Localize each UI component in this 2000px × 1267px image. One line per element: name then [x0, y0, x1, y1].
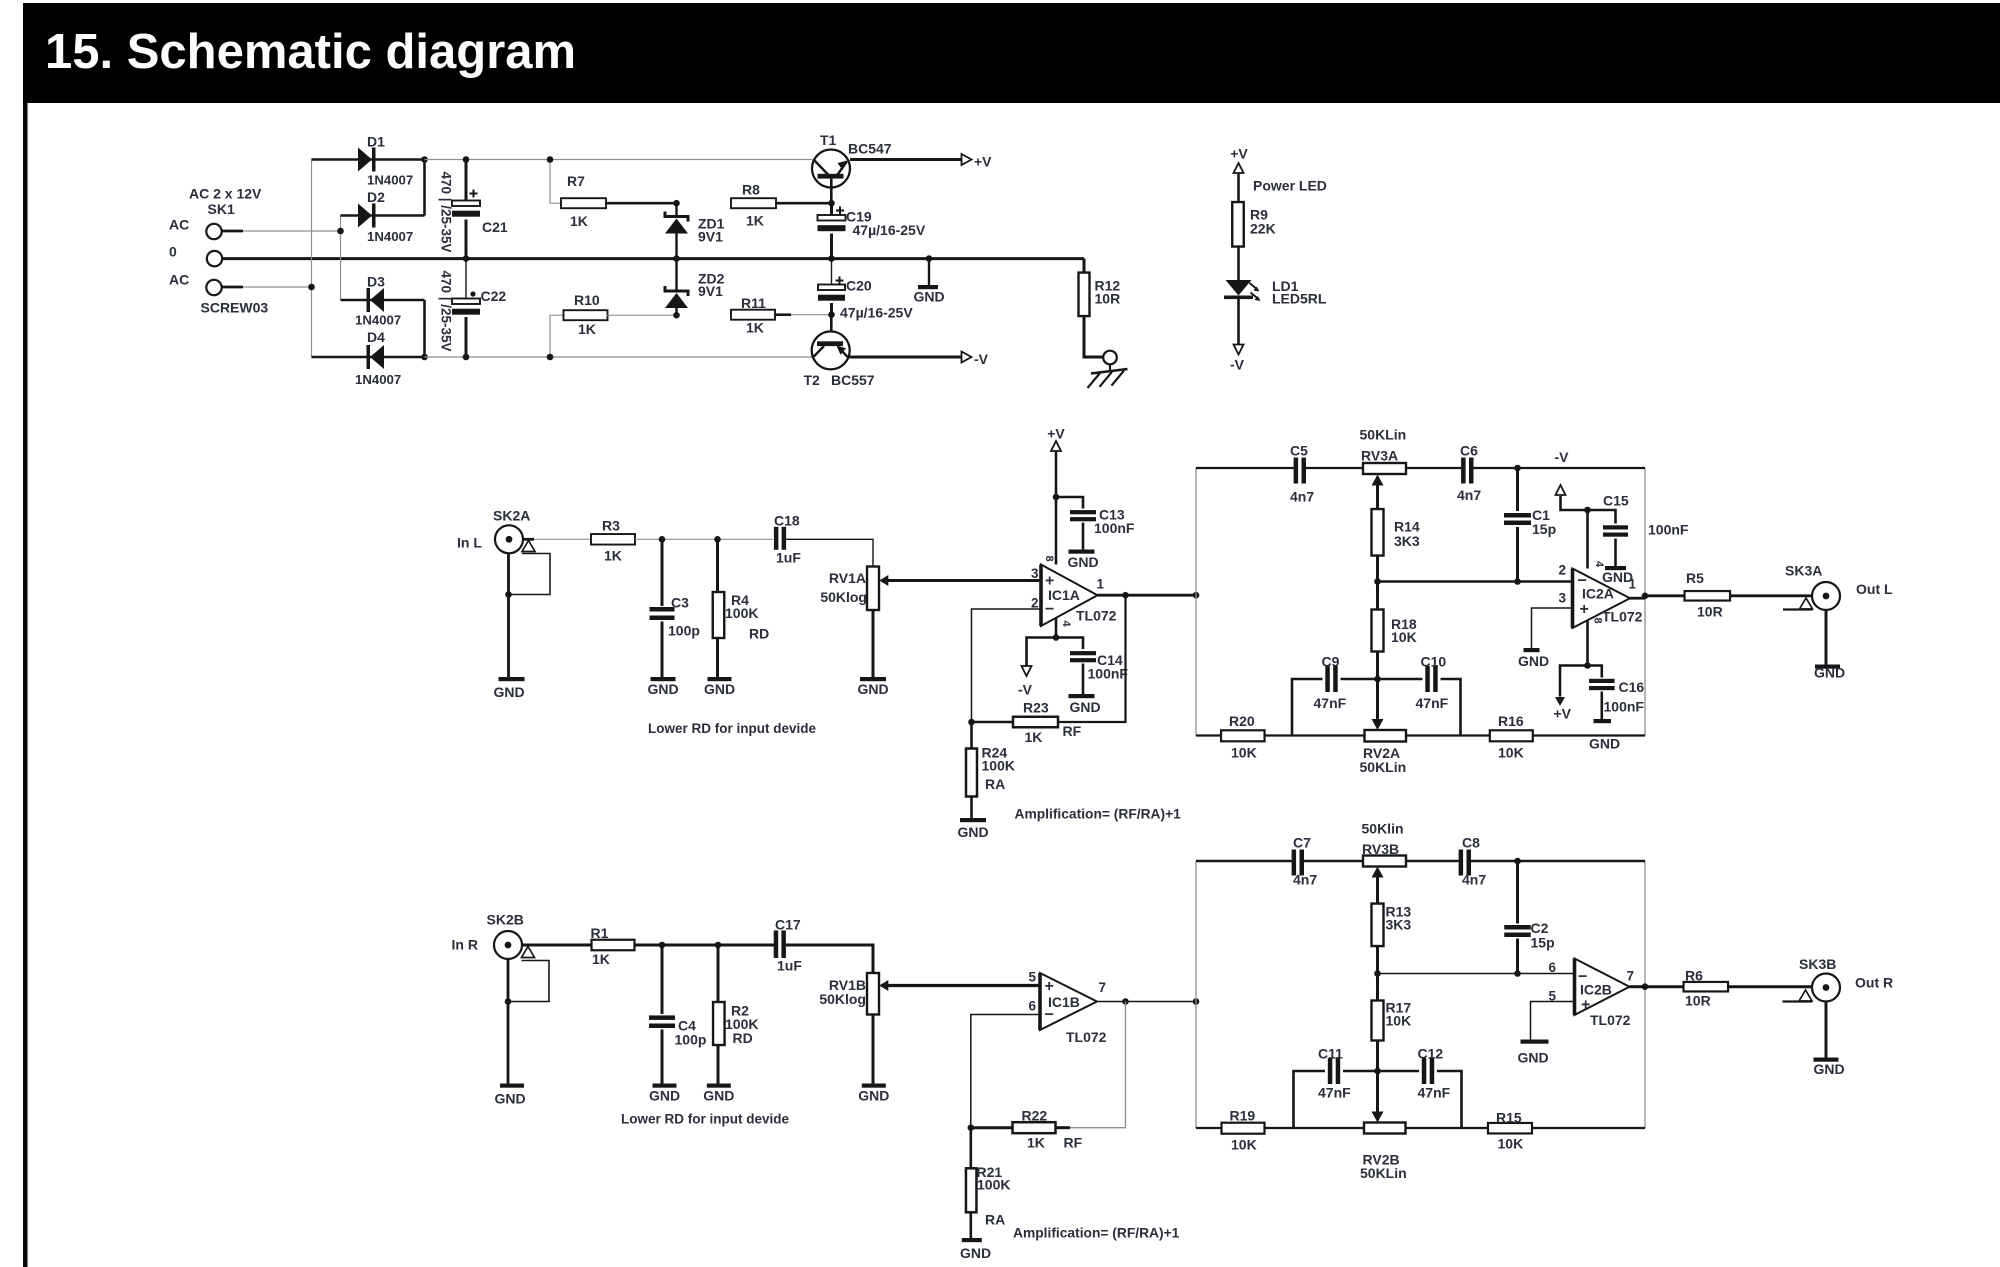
svg-text:10K: 10K	[1391, 629, 1417, 645]
left page border	[23, 103, 28, 1267]
node -V (LED)	[1234, 345, 1244, 355]
wire	[1083, 259, 1086, 273]
svg-text:C5: C5	[1290, 443, 1308, 459]
ground	[1594, 719, 1612, 723]
svg-text:1K: 1K	[1025, 729, 1043, 745]
svg-text:47µ/16-25V: 47µ/16-25V	[840, 305, 913, 321]
svg-text:100nF: 100nF	[1094, 520, 1135, 536]
resistor R17	[1376, 974, 1379, 1001]
resistor R6	[1684, 982, 1729, 992]
ground	[962, 1238, 982, 1242]
svg-text:C7: C7	[1293, 835, 1311, 851]
junction	[1584, 662, 1591, 669]
svg-text:100p: 100p	[668, 623, 700, 639]
svg-text:47nF: 47nF	[1416, 695, 1449, 711]
svg-text:10K: 10K	[1498, 1136, 1524, 1152]
svg-text:AC: AC	[169, 272, 189, 288]
junction	[421, 354, 428, 361]
svg-text:RD: RD	[733, 1030, 753, 1046]
svg-text:R19: R19	[1230, 1108, 1256, 1124]
resistor R21	[969, 1128, 972, 1169]
svg-text:GND: GND	[1518, 653, 1549, 669]
connector SK3A	[1812, 582, 1840, 610]
wire	[1560, 666, 1588, 697]
svg-text:R3: R3	[602, 518, 620, 534]
svg-text:RV3B: RV3B	[1362, 841, 1399, 857]
wire	[1055, 618, 1058, 638]
connector SK3B	[1812, 974, 1840, 1002]
svg-text:GND: GND	[958, 824, 989, 840]
junction	[421, 156, 428, 163]
svg-text:GND: GND	[858, 1088, 889, 1104]
capacitor C1	[1516, 468, 1519, 511]
svg-text:R16: R16	[1498, 713, 1524, 729]
wire	[1531, 1002, 1575, 1040]
svg-text:GND: GND	[649, 1088, 680, 1104]
svg-text:C17: C17	[775, 917, 801, 933]
wire	[222, 230, 243, 233]
wire	[1056, 638, 1083, 650]
svg-text:3K3: 3K3	[1386, 917, 1412, 933]
wire	[1058, 595, 1126, 722]
svg-text:T2: T2	[804, 372, 821, 388]
svg-text:1uF: 1uF	[776, 550, 801, 566]
svg-text:R15: R15	[1496, 1110, 1522, 1126]
sleeve symbol SK2B	[522, 947, 535, 958]
connector SK2B	[494, 931, 522, 959]
resistor R24	[970, 722, 973, 749]
wire tone box left edge	[1195, 468, 1197, 736]
potentiometer RV1A	[867, 567, 879, 611]
wire	[972, 609, 1042, 722]
wire	[222, 286, 243, 289]
wire	[534, 538, 591, 540]
wire	[776, 202, 832, 205]
junction	[828, 255, 835, 262]
junction	[463, 354, 470, 361]
ground	[862, 1084, 886, 1088]
wire wiper to IC1A	[888, 579, 1041, 582]
svg-text:GND: GND	[647, 681, 678, 697]
svg-text:C6: C6	[1460, 443, 1478, 459]
wire bottom raw rail	[425, 356, 813, 358]
wire	[1825, 610, 1828, 665]
svg-text:SK1: SK1	[208, 201, 235, 217]
svg-text:4n7: 4n7	[1462, 872, 1486, 888]
resistor R9	[1232, 202, 1244, 247]
capacitor C17	[774, 930, 779, 958]
junction	[1514, 858, 1521, 865]
svg-text:50Klog: 50Klog	[820, 589, 867, 605]
transistor T2	[830, 315, 833, 342]
ground	[1521, 1040, 1549, 1044]
wire	[1730, 594, 1812, 597]
junction	[1122, 998, 1129, 1005]
capacitor C8	[1459, 850, 1464, 876]
svg-text:C21: C21	[482, 219, 508, 235]
svg-text:50Klog: 50Klog	[819, 991, 866, 1007]
potentiometer RV1B	[867, 973, 879, 1015]
svg-text:+V: +V	[1554, 706, 1572, 722]
wire	[312, 356, 425, 359]
sleeve symbol SK2A	[522, 541, 535, 552]
wire	[791, 314, 832, 316]
potentiometer RV2A	[1376, 679, 1379, 719]
svg-text:GND: GND	[913, 289, 944, 305]
wire top rail	[1196, 860, 1292, 862]
junction	[547, 354, 554, 361]
svg-text:C3: C3	[671, 595, 689, 611]
ground	[707, 1084, 731, 1088]
svg-text:8: 8	[1592, 617, 1604, 623]
resistor R2	[717, 945, 720, 1002]
svg-text:R1: R1	[591, 925, 609, 941]
wire	[775, 313, 791, 316]
svg-text:RA: RA	[985, 1212, 1005, 1228]
svg-text:AC: AC	[169, 217, 189, 233]
junction	[1374, 1068, 1381, 1075]
svg-text:7: 7	[1099, 980, 1107, 995]
svg-text:R7: R7	[567, 173, 585, 189]
svg-text:10K: 10K	[1386, 1013, 1412, 1029]
op-amp IC2B	[1575, 959, 1630, 1016]
svg-text:100nF: 100nF	[1604, 699, 1645, 715]
junction	[1642, 983, 1649, 990]
node +V	[962, 154, 972, 165]
wire IC2B output	[1630, 985, 1646, 988]
svg-text:470 | /25-35V: 470 | /25-35V	[439, 171, 454, 252]
junction	[1642, 593, 1649, 600]
wire	[1728, 985, 1812, 988]
junction	[968, 1124, 975, 1131]
svg-text:RV1A: RV1A	[829, 570, 866, 586]
junction	[463, 255, 470, 262]
svg-text:3: 3	[1031, 566, 1039, 581]
svg-text:TL072: TL072	[1602, 609, 1643, 625]
op-amp IC1B	[1040, 973, 1097, 1030]
resistor R1	[592, 940, 635, 951]
svg-text:-V: -V	[974, 351, 989, 367]
svg-text:+: +	[1581, 997, 1590, 1014]
svg-text:GND: GND	[1518, 1050, 1549, 1066]
capacitor C10	[1425, 666, 1430, 692]
wire	[607, 314, 677, 316]
resistor R15	[1488, 1123, 1532, 1134]
wire pin2 line	[1378, 580, 1573, 583]
svg-text:C11: C11	[1318, 1046, 1343, 1062]
wire	[1588, 510, 1616, 524]
svg-text:Power LED: Power LED	[1253, 178, 1327, 194]
svg-text:BC557: BC557	[831, 372, 875, 388]
svg-text:0: 0	[169, 244, 177, 260]
svg-text:10K: 10K	[1231, 1137, 1257, 1153]
op-amp IC1A	[1041, 565, 1098, 627]
resistor R8	[731, 198, 776, 208]
wire	[1588, 666, 1602, 678]
svg-text:10R: 10R	[1095, 291, 1121, 307]
svg-text:IC1A: IC1A	[1048, 587, 1080, 603]
resistor R22	[971, 1126, 1013, 1129]
svg-text:GND: GND	[1602, 569, 1633, 585]
resistor R23	[972, 721, 1014, 724]
svg-text:In R: In R	[452, 937, 478, 953]
title bar	[23, 3, 2000, 103]
wire C9-C10 bridge	[1292, 679, 1323, 736]
wire	[550, 160, 561, 204]
wire	[243, 286, 312, 288]
svg-text:1K: 1K	[746, 320, 764, 336]
svg-text:100nF: 100nF	[1648, 522, 1689, 538]
wire	[1237, 173, 1240, 202]
svg-text:TL072: TL072	[1076, 608, 1117, 624]
svg-text:C16: C16	[1619, 679, 1645, 695]
capacitor C5	[1294, 458, 1299, 484]
wire tone box right edge	[1644, 468, 1646, 736]
svg-text:Out R: Out R	[1855, 975, 1893, 991]
potentiometer RV3B	[1363, 856, 1406, 867]
svg-text:C8: C8	[1462, 835, 1480, 851]
svg-text:+V: +V	[1230, 146, 1248, 162]
wire tone box left edge	[1195, 861, 1197, 1128]
svg-text:−: −	[1045, 601, 1054, 618]
junction	[673, 255, 680, 262]
svg-text:+: +	[1045, 978, 1054, 995]
svg-text:C9: C9	[1322, 654, 1340, 670]
svg-text:AC 2 x 12V: AC 2 x 12V	[189, 186, 262, 202]
ground	[651, 677, 676, 681]
svg-text:10K: 10K	[1498, 745, 1524, 761]
junction	[714, 536, 721, 543]
svg-text:47nF: 47nF	[1314, 695, 1347, 711]
ground	[1069, 550, 1095, 554]
svg-text:GND: GND	[1814, 665, 1845, 681]
svg-text:10K: 10K	[1231, 745, 1257, 761]
wire	[1056, 497, 1083, 509]
svg-text:C15: C15	[1603, 493, 1629, 509]
wire	[635, 538, 773, 540]
wire top rail	[1196, 467, 1294, 469]
junction	[505, 998, 512, 1005]
svg-text:6: 6	[1028, 999, 1036, 1014]
wire	[1561, 496, 1588, 569]
wire	[872, 1015, 875, 1084]
svg-text:R20: R20	[1229, 713, 1255, 729]
node -V	[1022, 666, 1032, 676]
junction	[968, 719, 975, 726]
svg-text:+: +	[1580, 601, 1589, 618]
wire +V supply IC1A	[1055, 451, 1058, 565]
svg-text:1K: 1K	[570, 213, 588, 229]
ground	[499, 677, 525, 681]
svg-text:GND: GND	[1069, 699, 1100, 715]
junction	[926, 255, 933, 262]
junction	[673, 312, 680, 319]
junction	[1193, 998, 1200, 1005]
ground	[1524, 648, 1540, 652]
svg-text:50KLin: 50KLin	[1360, 1165, 1407, 1181]
capacitor C12	[1422, 1058, 1427, 1084]
wire tone box right edge	[1644, 861, 1646, 1128]
wire sleeve bracket	[509, 554, 551, 595]
svg-text:GND: GND	[1589, 736, 1620, 752]
svg-text:D1: D1	[367, 134, 385, 150]
capacitor C3	[661, 539, 664, 606]
svg-text:1K: 1K	[1027, 1135, 1045, 1151]
resistor R13	[1372, 904, 1384, 947]
wire IC1B output	[1097, 1001, 1196, 1003]
svg-text:4n7: 4n7	[1290, 489, 1314, 505]
svg-text:R22: R22	[1022, 1108, 1048, 1124]
wire left bus	[311, 160, 313, 358]
junction	[463, 156, 470, 163]
svg-text:C20: C20	[846, 278, 872, 294]
svg-text:Amplification= (RF/RA)+1: Amplification= (RF/RA)+1	[1013, 1226, 1180, 1241]
node +V	[1555, 697, 1565, 706]
svg-text:9V1: 9V1	[698, 283, 723, 299]
svg-text:1uF: 1uF	[777, 958, 802, 974]
resistor R4	[716, 539, 719, 592]
wire	[1532, 608, 1573, 648]
svg-text:RA: RA	[985, 776, 1005, 792]
svg-text:15. Schematic diagram: 15. Schematic diagram	[45, 25, 576, 79]
svg-text:5: 5	[1028, 970, 1036, 985]
wire shield to ground	[507, 553, 510, 677]
svg-text:4n7: 4n7	[1457, 487, 1481, 503]
svg-text:10R: 10R	[1685, 993, 1711, 1009]
svg-text:-V: -V	[1018, 682, 1033, 698]
svg-text:R10: R10	[574, 292, 600, 308]
junction	[308, 284, 315, 291]
connector SK1	[206, 224, 221, 239]
potentiometer RV3A	[1363, 463, 1406, 474]
svg-text:50Klin: 50Klin	[1362, 821, 1404, 837]
svg-text:BC547: BC547	[848, 141, 892, 157]
capacitor C11	[1328, 1058, 1333, 1084]
wire	[1586, 620, 1589, 666]
svg-text:In L: In L	[457, 535, 482, 551]
svg-text:D4: D4	[367, 329, 385, 345]
svg-text:GND: GND	[704, 681, 735, 697]
svg-text:1K: 1K	[746, 213, 764, 229]
wire	[635, 944, 775, 947]
svg-text:R8: R8	[742, 182, 760, 198]
capacitor C9	[1325, 666, 1330, 692]
svg-text:Lower RD for input devide: Lower RD for input devide	[648, 721, 816, 736]
capacitor C18	[774, 527, 779, 550]
svg-text:T1: T1	[820, 132, 837, 148]
junction	[1193, 592, 1200, 599]
wire pin6 line	[1378, 973, 1575, 975]
resistor R14	[1372, 509, 1384, 556]
connector SK2A	[495, 525, 523, 553]
svg-text:50KLin: 50KLin	[1360, 759, 1407, 775]
ground	[960, 818, 986, 822]
capacitor C21	[465, 160, 468, 201]
wire	[550, 315, 564, 357]
svg-text:Out L: Out L	[1856, 581, 1893, 597]
svg-text:SK2B: SK2B	[487, 912, 524, 928]
resistor R16	[1490, 730, 1533, 741]
svg-text:47µ/16-25V: 47µ/16-25V	[853, 222, 926, 238]
svg-text:GND: GND	[493, 684, 524, 700]
svg-text:C12: C12	[1418, 1046, 1444, 1062]
svg-text:1K: 1K	[592, 951, 610, 967]
wire	[1825, 1002, 1828, 1059]
ground	[653, 1084, 677, 1088]
svg-text:Lower RD for input devide: Lower RD for input devide	[621, 1112, 789, 1127]
svg-text:100K: 100K	[725, 605, 758, 621]
svg-text:9V1: 9V1	[698, 229, 723, 245]
svg-text:4n7: 4n7	[1293, 872, 1317, 888]
svg-text:3: 3	[1558, 591, 1566, 606]
svg-text:GND: GND	[494, 1091, 525, 1107]
zener ZD1	[675, 203, 677, 218]
wire +V out	[850, 158, 962, 161]
wire bottom rail	[1196, 1127, 1222, 1129]
svg-text:+V: +V	[974, 154, 992, 170]
junction	[659, 942, 666, 949]
junction	[659, 536, 666, 543]
wire	[786, 539, 873, 566]
svg-text:470 | /25-35V: 470 | /25-35V	[439, 270, 454, 351]
junction	[673, 200, 680, 207]
svg-text:C22: C22	[481, 288, 507, 304]
svg-text:2: 2	[1558, 563, 1566, 578]
capacitor C20	[831, 259, 833, 285]
svg-text:SK3B: SK3B	[1799, 956, 1836, 972]
svg-text:1K: 1K	[604, 548, 622, 564]
junction	[1053, 494, 1060, 501]
ground	[860, 677, 886, 681]
wire	[1237, 247, 1240, 281]
svg-text:GND: GND	[703, 1088, 734, 1104]
svg-text:8: 8	[1043, 555, 1055, 561]
svg-text:IC2A: IC2A	[1582, 586, 1614, 602]
svg-text:6: 6	[1548, 960, 1556, 975]
junction	[547, 156, 554, 163]
svg-text:3K3: 3K3	[1394, 533, 1420, 549]
svg-text:4: 4	[1060, 620, 1072, 627]
svg-text:-V: -V	[1555, 449, 1570, 465]
svg-text:47nF: 47nF	[1318, 1085, 1351, 1101]
svg-text:R5: R5	[1686, 570, 1704, 586]
svg-text:D2: D2	[367, 189, 385, 205]
wire IC2A output	[1630, 597, 1645, 600]
capacitor C4	[661, 945, 664, 1014]
svg-text:100p: 100p	[675, 1032, 707, 1048]
resistor R19	[1222, 1123, 1265, 1134]
svg-text:15p: 15p	[1532, 521, 1556, 537]
potentiometer RV2B	[1376, 1071, 1379, 1112]
ground	[1069, 694, 1095, 698]
wire	[606, 202, 677, 205]
wire 0V rail	[222, 257, 1084, 260]
junction	[1374, 578, 1381, 585]
wire	[312, 158, 425, 161]
ground	[1814, 1058, 1839, 1062]
capacitor C2	[1516, 861, 1519, 924]
zener ZD2	[675, 259, 677, 293]
svg-text:TL072: TL072	[1590, 1012, 1631, 1028]
wire	[522, 944, 592, 947]
svg-text:GND: GND	[1814, 1061, 1845, 1077]
ground	[708, 677, 732, 681]
wire IC1A output	[1098, 594, 1197, 597]
svg-text:1K: 1K	[578, 321, 596, 337]
svg-text:R6: R6	[1685, 968, 1703, 984]
ground	[1605, 566, 1626, 570]
svg-text:LED5RL: LED5RL	[1272, 291, 1327, 307]
